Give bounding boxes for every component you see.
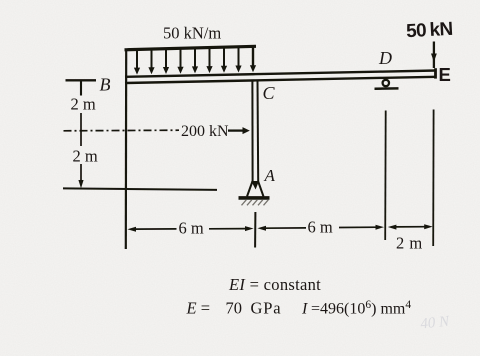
top tick at B level [66,79,97,81]
load arrow 3 [163,49,169,74]
dashed reference line at 200 kN level [64,129,180,132]
svg-text:C: C [263,83,276,103]
svg-text:2 m: 2 m [73,147,98,166]
column C-A left line [251,81,253,182]
column C-A right line [257,81,260,182]
beam end cap at E [434,68,437,78]
svg-text:E =: E = [186,299,211,318]
svg-text:B: B [100,75,111,95]
dimension 6 m (left span) [127,226,253,232]
beam B-E top line [125,71,436,77]
svg-text:70: 70 [226,299,243,318]
load arrow 1 [134,50,140,75]
svg-text:40 N: 40 N [420,313,451,332]
svg-text:200 kN: 200 kN [181,123,229,140]
vertical 2m dimension upper [78,81,83,189]
svg-text:2 m: 2 m [396,234,423,253]
dimension 2 m (overhang) [388,224,433,229]
load arrow 7 [221,47,227,73]
load arrow 8 [235,47,241,73]
load arrow 5 [192,48,198,74]
dimension 6 m (right span) [257,225,384,231]
extension line from E down [432,110,434,247]
distributed load 50 kN/m top line [125,46,257,50]
extension line below column A [254,212,256,248]
svg-text:6 m: 6 m [179,219,204,238]
extension line from B down [125,49,128,250]
extension line from D down [384,111,387,241]
svg-text:D: D [378,48,392,68]
svg-text:EI = constant: EI = constant [228,275,321,294]
reference line at A level [63,188,217,190]
load arrow 6 [206,48,212,74]
svg-text:50kN: 50kN [406,19,454,42]
svg-text:6 m: 6 m [308,218,333,237]
svg-text:50 kN/m: 50 kN/m [163,24,221,43]
load arrow 9 (right end bar) [250,46,256,72]
load arrow 4 [177,48,183,73]
200 kN arrow [228,127,250,134]
50 kN arrow at E [431,42,437,69]
svg-text:GPa: GPa [251,299,282,318]
svg-text:A: A [264,166,276,185]
roller support at D [375,80,399,89]
pin support at A [239,181,270,205]
svg-text:E: E [439,64,451,85]
svg-text:I =496(106) mm4: I =496(106) mm4 [301,299,411,318]
svg-text:2 m: 2 m [71,95,96,114]
load arrow 2 [148,49,154,74]
beam B-E bottom line [125,77,436,83]
